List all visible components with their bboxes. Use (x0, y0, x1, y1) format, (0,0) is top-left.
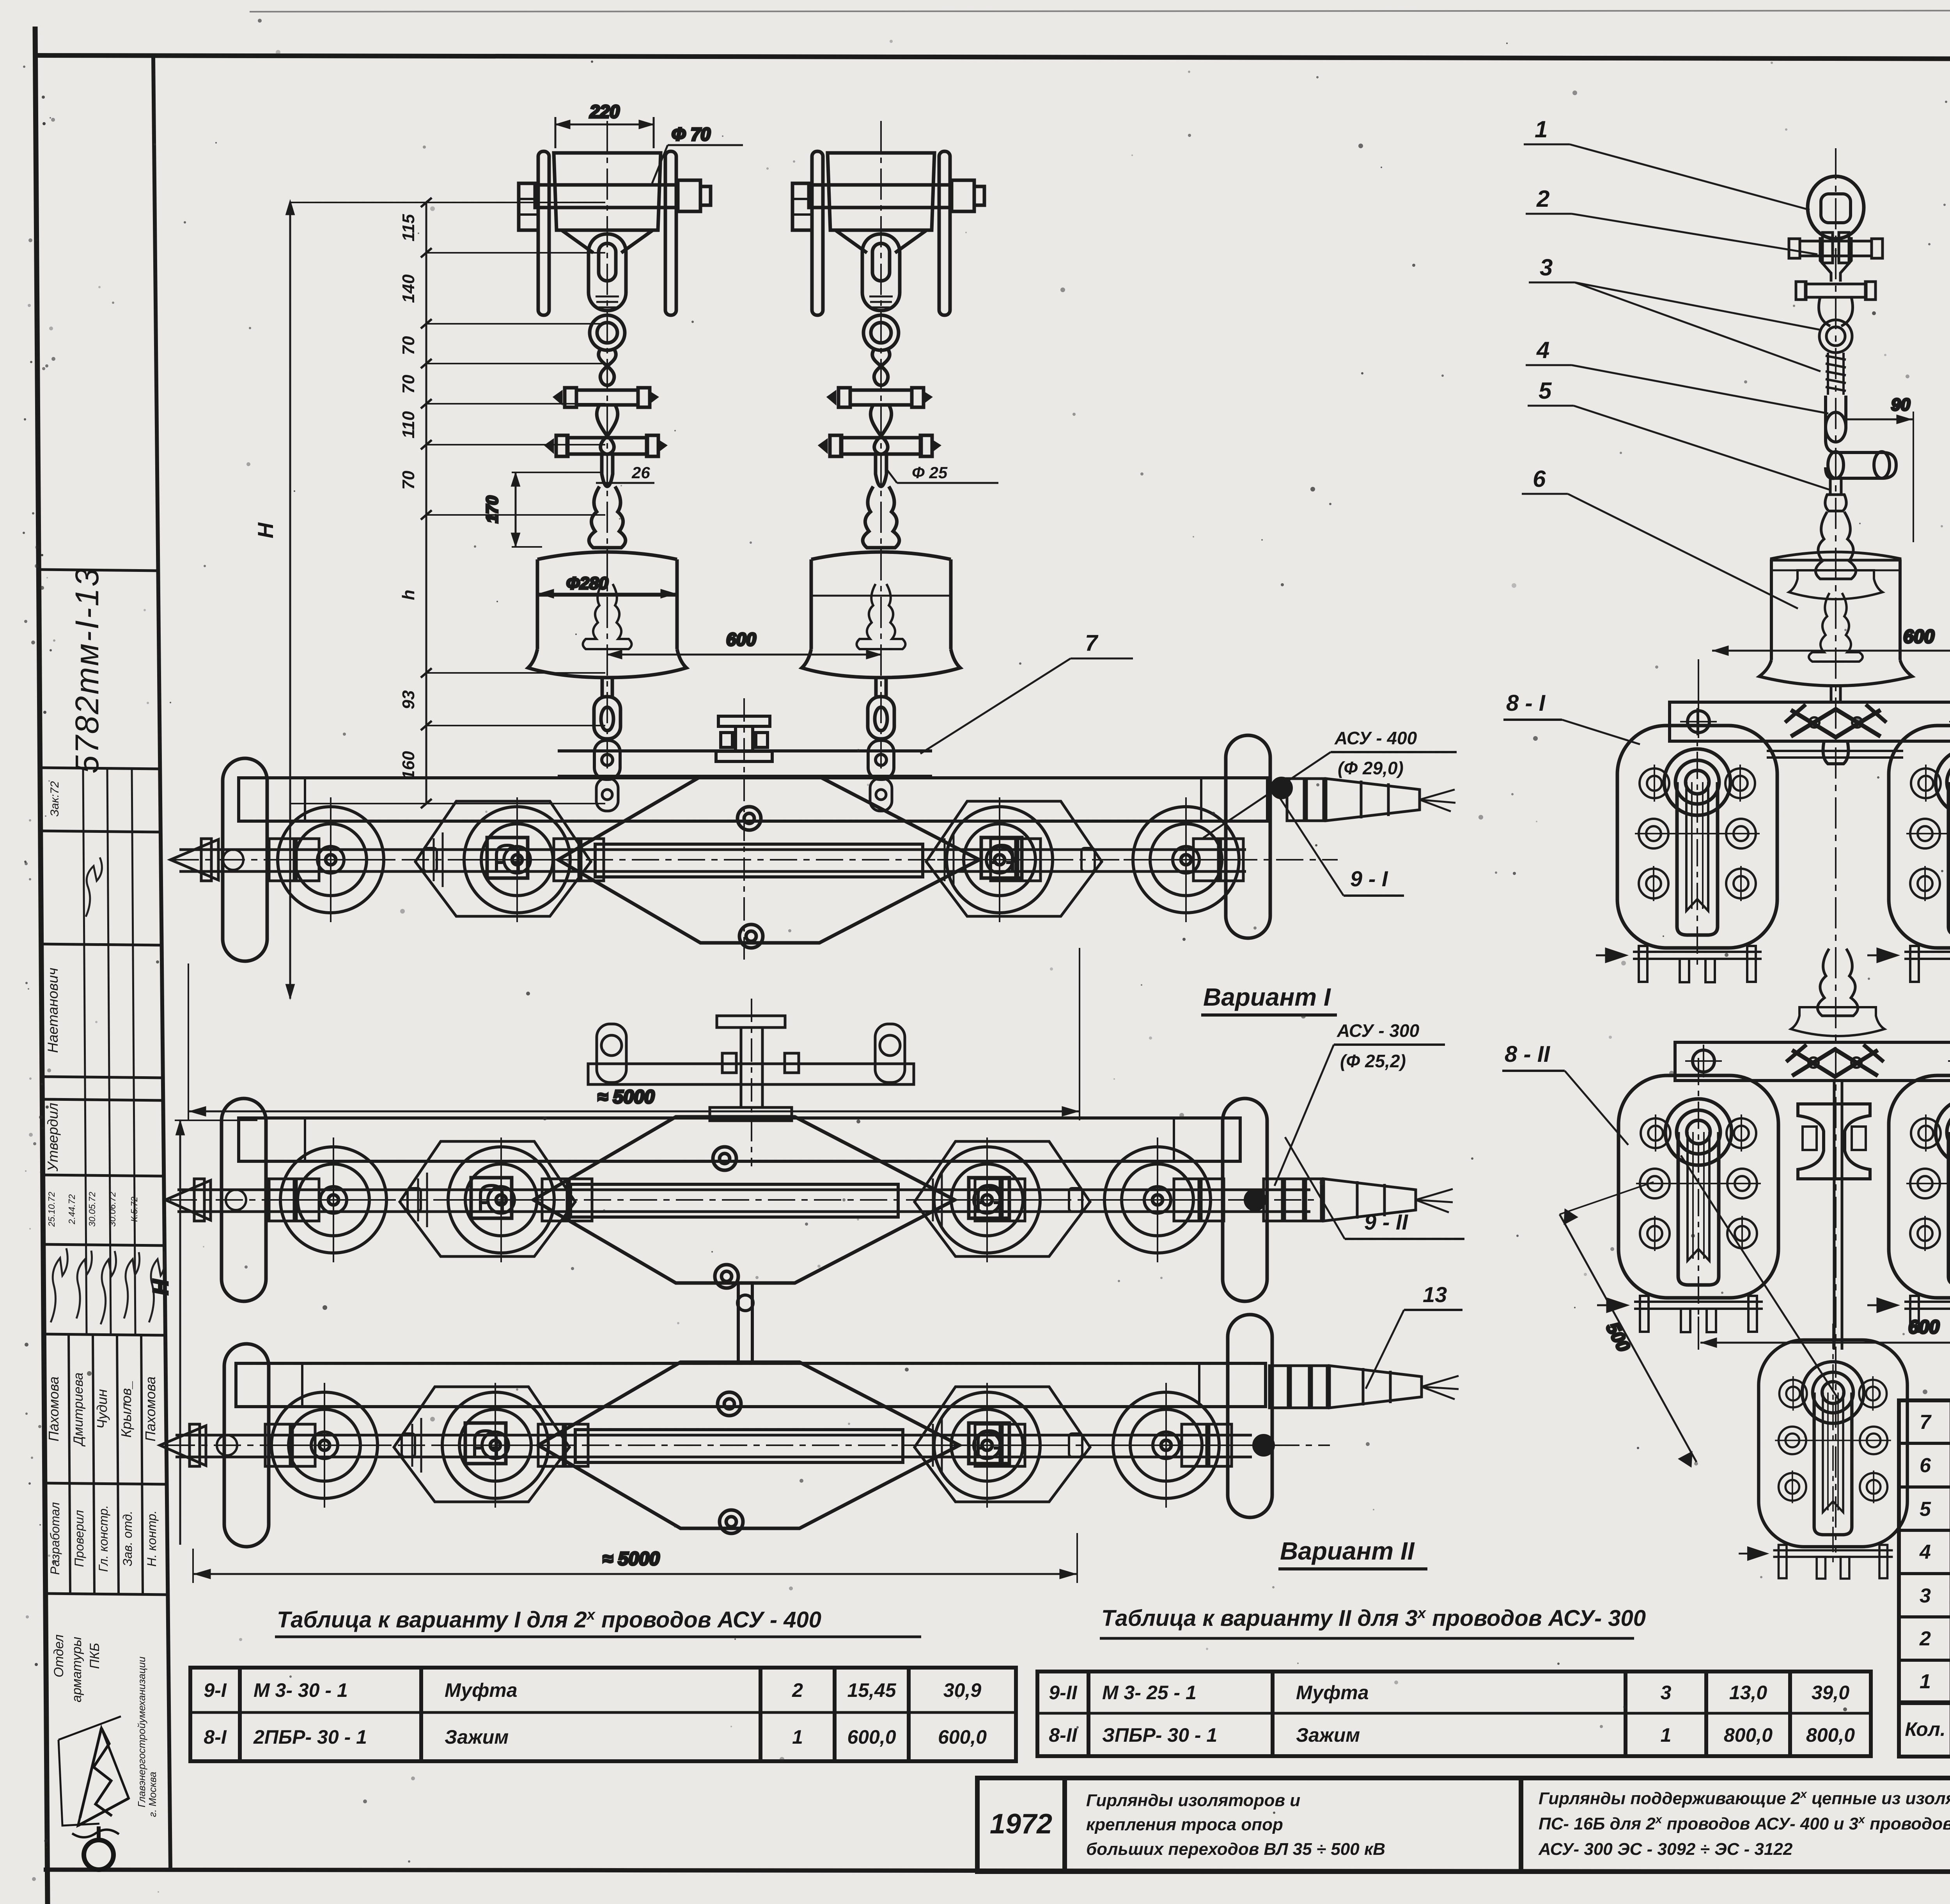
end roller right asm2 (1223, 1098, 1267, 1301)
dimension line H (variant II) (149, 1120, 257, 1545)
svg-text:Пахомова: Пахомова (46, 1377, 62, 1441)
twin roller blocks 8-II (1597, 1058, 1778, 1332)
svg-text:30,9: 30,9 (943, 1679, 982, 1701)
svg-text:крепления троса опо: крепления троса опор (1086, 1815, 1283, 1834)
clamp over pulley 3 asm3 (969, 1423, 1009, 1464)
big insulator body (1759, 552, 1912, 686)
link between asm2 and asm3 (737, 1284, 753, 1365)
cable wedge end right asm2 (1264, 1179, 1453, 1221)
svg-text:Зажим: Зажим (1296, 1724, 1360, 1746)
pulley asm3.3 (925, 1383, 1049, 1508)
8-II suspension plate (1675, 1042, 1950, 1081)
svg-text:Ф 25: Ф 25 (912, 463, 948, 482)
svg-text:Вариант II: Вариант II (1280, 1537, 1415, 1565)
svg-text:(Ф 29,0): (Ф 29,0) (1338, 758, 1404, 778)
cheek plate over pulley3 asm3 (915, 1387, 1090, 1502)
sheet frame left border (35, 27, 48, 1904)
svg-text:2.44.72: 2.44.72 (67, 1194, 77, 1224)
svg-text:39,0: 39,0 (1812, 1682, 1850, 1703)
svg-text:Н. контр.: Н. контр. (145, 1510, 159, 1567)
pulley asm2.1 (271, 1137, 396, 1262)
svg-text:Кол.: Кол. (1905, 1718, 1945, 1740)
svg-text:Главэнергостройумеханизации: Главэнергостройумеханизации (136, 1657, 147, 1808)
sheet frame bottom border (44, 1870, 1950, 1872)
central rail I-beam 8-II (1798, 1081, 1870, 1350)
diamond yoke plate asm1 (558, 777, 979, 948)
pulley asm1.4 (1124, 797, 1248, 922)
8-I suspension beam (1670, 702, 1950, 764)
pulley asm1.3 (937, 797, 1062, 922)
svg-text:140: 140 (399, 274, 418, 303)
pulley asm3.1 (262, 1383, 387, 1508)
yoke bar asm3 (236, 1363, 1266, 1407)
small bell between 8-I and 8-II (1791, 949, 1884, 1036)
svg-text:70: 70 (399, 470, 418, 490)
svg-text:93: 93 (399, 690, 418, 710)
svg-text:Разработал: Разработал (48, 1502, 62, 1575)
end roller right asm1 (1226, 735, 1270, 938)
cable wedge end right asm1 (1287, 779, 1455, 821)
pulley asm1.1 (268, 797, 393, 922)
svg-text:арматуры: арматуры (69, 1637, 84, 1702)
cable wedge end left asm2 (165, 1179, 1224, 1221)
clamp over pulley 2 asm2 (471, 1178, 512, 1218)
centerline asm3 (168, 1444, 1330, 1446)
svg-text:больших переходов ВЛ 35 ÷ 50: больших переходов ВЛ 35 ÷ 500 кВ (1086, 1840, 1385, 1859)
svg-text:Таблица к варианту I для: Таблица к варианту I для 2х проводов АСУ… (277, 1607, 821, 1633)
small bolt left asm2 (226, 1188, 421, 1212)
svg-text:Отдел: Отдел (51, 1634, 66, 1677)
svg-text:≈ 5000: ≈ 5000 (597, 1087, 655, 1107)
cheek plate over pulley3 asm2 (915, 1141, 1090, 1256)
cheek plate over pulley2 asm2 (400, 1141, 575, 1256)
svg-text:1: 1 (1661, 1724, 1672, 1746)
svg-text:8-I: 8-I (204, 1726, 227, 1748)
dim 5000 variant I (188, 948, 1080, 1120)
pulley asm2.2 (439, 1137, 564, 1262)
svg-text:8 - I: 8 - I (1506, 690, 1546, 716)
svg-text:ПС- 16Б для 2х проводов: ПС- 16Б для 2х проводов АСУ- 400 и 3х пр… (1539, 1813, 1950, 1833)
svg-text:Проверил: Проверил (72, 1510, 86, 1567)
svg-text:Гирлянды изоляторов и: Гирлянды изоляторов и (1086, 1791, 1300, 1810)
svg-text:К.5.72: К.5.72 (129, 1196, 139, 1222)
dim 600 (8-II) (1698, 1317, 1950, 1350)
svg-text:H: H (253, 522, 278, 538)
small bolt right asm2 (1069, 1188, 1265, 1212)
svg-text:Гирлянды поддерживающие 2х: Гирлянды поддерживающие 2х цепные из изо… (1539, 1788, 1950, 1808)
item5 серьга (1825, 478, 1846, 511)
svg-text:9 - II: 9 - II (1364, 1210, 1408, 1234)
svg-text:АСУ - 300: АСУ - 300 (1337, 1020, 1420, 1041)
cable wedge end right asm3 (1269, 1366, 1459, 1408)
svg-text:600: 600 (726, 629, 756, 649)
svg-text:8 - II: 8 - II (1505, 1042, 1551, 1067)
conductor line asm1 (179, 850, 1246, 871)
svg-text:7: 7 (1085, 630, 1099, 656)
svg-text:5782тм-I-13: 5782тм-I-13 (69, 567, 105, 774)
lug under chain1 (596, 778, 618, 811)
svg-text:h: h (399, 590, 418, 600)
small bolt right asm3 (1069, 1434, 1274, 1457)
dim 500 diagonal (1560, 1182, 1696, 1466)
bottom roller block (1739, 1324, 1907, 1579)
cable wedge end left asm3 (160, 1424, 1232, 1466)
svg-text:8-II: 8-II (1049, 1724, 1077, 1746)
svg-text:3: 3 (1540, 254, 1553, 280)
dim 5000 variant II (193, 1533, 1077, 1583)
svg-text:Зажим: Зажим (445, 1726, 509, 1748)
middle chain centerline (1835, 148, 1837, 1553)
svg-text:H: H (149, 1279, 172, 1295)
end roller left asm2 (222, 1098, 266, 1301)
svg-text:2ПБР- 30 - 1: 2ПБР- 30 - 1 (253, 1726, 367, 1748)
svg-text:Наетанович: Наетанович (45, 968, 61, 1053)
svg-text:Муфта: Муфта (1296, 1682, 1369, 1703)
svg-text:2: 2 (1919, 1627, 1931, 1650)
callout 5 (1539, 378, 1552, 404)
svg-text:Ф 70: Ф 70 (672, 124, 711, 144)
callout 6 (1533, 466, 1546, 492)
long leader to bottom block (1681, 1155, 1839, 1400)
svg-text:170: 170 (483, 496, 501, 523)
svg-text:600: 600 (1903, 626, 1934, 647)
svg-text:30.06.72: 30.06.72 (107, 1192, 117, 1227)
svg-text:Гл. констр.: Гл. констр. (96, 1505, 110, 1572)
svg-text:115: 115 (399, 214, 418, 241)
svg-text:4: 4 (1536, 337, 1549, 363)
pulley asm3.2 (433, 1383, 558, 1508)
callout 1 (1535, 116, 1548, 142)
svg-text:Утвердил: Утвердил (45, 1103, 61, 1172)
svg-text:9-I: 9-I (204, 1679, 227, 1701)
svg-text:800,0: 800,0 (1724, 1724, 1773, 1746)
parts list table (1899, 1400, 1950, 1757)
svg-text:26: 26 (631, 463, 650, 482)
svg-text:≈ 5000: ≈ 5000 (603, 1549, 660, 1569)
svg-text:Крылов_: Крылов_ (118, 1381, 134, 1438)
LEFT-STRIP (39, 570, 168, 1595)
svg-text:70: 70 (399, 336, 418, 355)
svg-text:1: 1 (1920, 1670, 1931, 1693)
svg-text:5: 5 (1539, 378, 1552, 404)
svg-text:160: 160 (399, 751, 418, 780)
callout 2 (1536, 186, 1549, 212)
small bolt left asm1 (223, 848, 437, 871)
svg-text:9-II: 9-II (1049, 1682, 1077, 1703)
pin below insulator (1831, 686, 1840, 702)
chain bottom link bar (558, 740, 932, 779)
cheek plate over pulley2 asm1 (415, 801, 591, 916)
dim 90 (1847, 395, 1913, 542)
svg-text:13,0: 13,0 (1729, 1682, 1767, 1703)
crane logo (58, 1716, 129, 1870)
clamp over pulley 3 asm2 (969, 1178, 1009, 1218)
svg-text:ЗПБР- 30 - 1: ЗПБР- 30 - 1 (1102, 1724, 1217, 1746)
small bolt left asm3 (217, 1434, 415, 1457)
svg-text:600,0: 600,0 (847, 1726, 896, 1748)
yoke bar asm1 (239, 778, 1267, 821)
svg-text:70: 70 (399, 374, 418, 394)
svg-text:6: 6 (1920, 1454, 1931, 1477)
dimension line H (variant I chains) (287, 198, 605, 999)
callout 4 (1536, 337, 1549, 363)
centerline asm2 (170, 1199, 1322, 1201)
clamp over pulley 2 asm1 (487, 838, 528, 878)
svg-text:АСУ - 400: АСУ - 400 (1334, 728, 1417, 748)
svg-text:Зав. отд.: Зав. отд. (121, 1511, 135, 1567)
svg-text:4: 4 (1919, 1541, 1931, 1563)
svg-text:800,0: 800,0 (1806, 1724, 1855, 1746)
svg-text:9 - I: 9 - I (1350, 866, 1388, 891)
dim 600 (8-I) (1698, 626, 1950, 706)
twin roller blocks 8-I (1596, 708, 1777, 982)
svg-text:Дмитриева: Дмитриева (71, 1373, 86, 1447)
callout 3 second leader (1575, 282, 1821, 371)
svg-text:25.10.72: 25.10.72 (46, 1192, 57, 1227)
suspension hanger asm2 (588, 999, 914, 1166)
cheek plate over pulley2 asm3 (394, 1387, 569, 1502)
title block (977, 1778, 1950, 1872)
lug under chain2 (870, 778, 892, 811)
svg-text:Чудин: Чудин (94, 1389, 110, 1429)
item4 L-bracket ПТМ (1826, 396, 1896, 478)
pulley asm1.2 (455, 797, 580, 922)
svg-text:М 3- 30 - 1: М 3- 30 - 1 (253, 1679, 348, 1701)
svg-text:30.05.72: 30.05.72 (87, 1192, 97, 1227)
svg-text:ПКБ: ПКБ (87, 1643, 102, 1669)
pulley asm2.3 (925, 1137, 1049, 1262)
svg-text:600,0: 600,0 (938, 1726, 987, 1748)
svg-text:Пахомова: Пахомова (142, 1377, 158, 1441)
svg-text:15,45: 15,45 (847, 1679, 896, 1701)
dim 170 (483, 472, 603, 547)
item4 spring link (1826, 353, 1846, 395)
small bolt right asm1 (1081, 778, 1292, 871)
svg-text:АСУ- 300 Э: АСУ- 300 ЭС - 3092 ÷ ЭС - 3122 (1538, 1840, 1793, 1859)
item6 insulator cap bell (1789, 512, 1883, 599)
svg-text:1: 1 (792, 1726, 803, 1748)
cable wedge end left asm1 (170, 839, 1243, 881)
svg-text:110: 110 (399, 411, 418, 438)
conductor line asm3 (175, 1435, 1252, 1457)
pulley asm3.4 (1104, 1383, 1228, 1508)
svg-text:13: 13 (1423, 1282, 1447, 1307)
dim 220 (555, 101, 654, 148)
svg-text:5: 5 (1920, 1498, 1931, 1521)
svg-text:90: 90 (1891, 395, 1910, 414)
svg-text:(Ф 25,2): (Ф 25,2) (1340, 1051, 1406, 1071)
svg-text:Ф280: Ф280 (566, 574, 608, 593)
callout 3 (1540, 254, 1553, 280)
clamp over pulley 3 asm1 (981, 838, 1022, 878)
end roller right asm3 (1228, 1315, 1272, 1517)
svg-text:3: 3 (1661, 1682, 1672, 1703)
item3 shackle (1796, 282, 1876, 353)
strap between 8-I blocks (1767, 750, 1903, 752)
clamp over pulley 2 asm3 (465, 1423, 506, 1464)
svg-text:1: 1 (1535, 116, 1548, 142)
insulator chain 1 (519, 121, 711, 768)
conductor line asm2 (177, 1190, 1310, 1212)
svg-text:6: 6 (1533, 466, 1546, 492)
end roller left asm1 (223, 758, 267, 961)
yoke bar asm2 (239, 1118, 1240, 1161)
svg-text:2: 2 (792, 1679, 803, 1701)
svg-text:Зак:72: Зак:72 (48, 781, 61, 816)
svg-text:М 3- 25 - 1: М 3- 25 - 1 (1102, 1682, 1197, 1703)
central suspension clamp item7 (716, 698, 772, 960)
svg-text:220: 220 (589, 101, 620, 122)
end roller left asm3 (224, 1344, 269, 1547)
cheek plate over pulley3 asm1 (926, 801, 1102, 916)
item1 top oval ring (1808, 176, 1864, 239)
svg-text:3: 3 (1920, 1585, 1931, 1607)
item2 shackle bolt (1789, 232, 1883, 282)
sheet frame top border (35, 55, 1950, 60)
centerline asm1 (172, 859, 1338, 861)
svg-text:Муфта: Муфта (445, 1679, 518, 1701)
svg-text:600: 600 (1908, 1317, 1939, 1338)
dim Ф280 (539, 574, 675, 597)
insulator chain 2 (792, 121, 984, 768)
svg-text:1972: 1972 (990, 1808, 1052, 1840)
diamond yoke plate asm3 (538, 1362, 959, 1533)
svg-text:2: 2 (1536, 186, 1549, 212)
pulley asm2.4 (1095, 1137, 1220, 1262)
svg-text:7: 7 (1920, 1411, 1932, 1434)
diamond yoke plate asm2 (534, 1117, 955, 1288)
svg-text:Вариант I: Вариант I (1203, 983, 1331, 1011)
left stamp strip right edge (153, 57, 170, 1870)
svg-text:Таблица к варианту II для: Таблица к варианту II для 3х проводов АС… (1101, 1605, 1646, 1631)
svg-text:г. Москва: г. Москва (147, 1772, 158, 1817)
dim Ф70 (652, 124, 743, 183)
dim 600 between chains (607, 629, 881, 658)
